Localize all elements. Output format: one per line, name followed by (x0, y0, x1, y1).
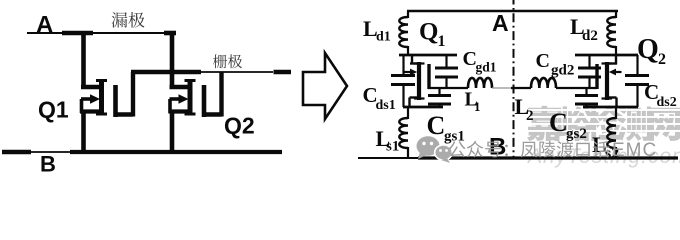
wire top rail (drain bus) (27, 32, 176, 34)
wire bottom rail (left, node B) (2, 150, 282, 155)
wire axis to gate (right) (514, 87, 532, 89)
svg-text:B: B (40, 152, 56, 175)
wire Q2 gate line (556, 87, 597, 89)
svg-text:Q: Q (419, 19, 438, 46)
svg-text:gs2: gs2 (566, 126, 587, 142)
svg-text:d2: d2 (582, 28, 598, 44)
svg-text:gd1: gd1 (476, 60, 497, 75)
inductor Ld1 (399, 11, 408, 55)
transistor Q1 (80, 79, 116, 117)
capacitor Cds2 (625, 55, 649, 107)
svg-text:ds1: ds1 (376, 98, 396, 113)
capacitor Cds1 (391, 55, 415, 107)
capacitor Cgs2 (575, 88, 598, 108)
transistor Q1 (model) (405, 55, 430, 107)
svg-text:2: 2 (658, 51, 666, 68)
capacitor Cgs1 (428, 88, 451, 108)
wechat icon (417, 136, 453, 163)
svg-text:ds2: ds2 (657, 95, 677, 110)
svg-text:s1: s1 (386, 139, 399, 155)
capacitor Cgd2 (578, 55, 601, 88)
svg-text:A: A (36, 12, 53, 39)
wire Q1 gate line (428, 87, 468, 89)
wire Q2 source drop (170, 110, 175, 152)
inductor Ls1 (399, 106, 408, 158)
wire Q2 drain node (575, 54, 638, 57)
wire Q1 drain node (399, 54, 457, 57)
svg-text:C: C (549, 108, 568, 137)
inductor Ls2 (607, 106, 616, 158)
label 栅极 (gate) (213, 54, 242, 68)
svg-text:2: 2 (526, 108, 534, 124)
inductor L2 (531, 78, 556, 88)
wire gate to axis (left) (492, 87, 512, 89)
watermark 嘉峪检测网 (520, 105, 680, 141)
svg-text:EMC: EMC (612, 140, 657, 161)
inductor Ld2 (607, 11, 616, 55)
transistor Q2 (model) (597, 55, 622, 107)
svg-text:Q2: Q2 (224, 113, 255, 139)
svg-text:1: 1 (438, 33, 446, 50)
wire Q1 drain drop (81, 33, 86, 89)
wire Q1 source drop (81, 110, 86, 152)
capacitor Cgd1 (435, 55, 458, 88)
arrow (transform) (303, 53, 347, 119)
axis line (dash-dot symmetry axis) (513, 0, 515, 157)
wire Q2 drain drop (170, 33, 175, 89)
wire Q2 source node (583, 106, 638, 109)
transistor Q2 (169, 79, 205, 117)
wire Q2 gate lead (204, 72, 222, 117)
svg-text:A: A (492, 10, 509, 36)
label 漏极 (drain) (112, 12, 145, 28)
svg-text:1: 1 (474, 99, 481, 114)
svg-text:d1: d1 (376, 30, 391, 45)
inductor L1 (468, 78, 492, 88)
wire Q1 gate lead (115, 72, 133, 117)
wire top rail (right) (407, 10, 618, 12)
wire Q1 source node (403, 106, 443, 109)
wire bottom rail (right) (358, 157, 678, 159)
svg-text:C: C (536, 50, 550, 72)
svg-text:C: C (427, 111, 446, 140)
caption 公众号：凤陵渡口话 (449, 141, 609, 158)
wire gate rail (131, 70, 291, 74)
svg-text:Q: Q (637, 34, 659, 65)
svg-text:Q1: Q1 (38, 97, 69, 123)
svg-text:gd2: gd2 (551, 63, 574, 79)
